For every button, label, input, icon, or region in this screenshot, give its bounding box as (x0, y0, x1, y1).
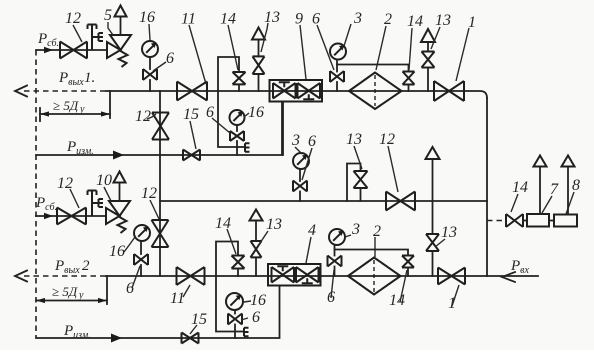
cap purge line1-loop (237, 143, 250, 151)
svg-text:14: 14 (215, 215, 231, 232)
valve 6 below gauge16 top-left (143, 69, 157, 91)
label 10 (96, 172, 112, 201)
svg-text:14: 14 (389, 292, 405, 309)
wire P_vyh2 dashed segment (24, 275, 106, 277)
gauge 16 top-left (142, 41, 158, 69)
label 3 line2 (345, 221, 360, 238)
valve 6 line2-loop (228, 314, 242, 339)
valve 12 bottom-left (57, 208, 86, 225)
svg-text:12: 12 (379, 131, 395, 148)
svg-text:Ризм.: Ризм. (63, 323, 91, 341)
pilot T-E symbol bottom (88, 191, 104, 217)
svg-text:12: 12 (65, 10, 81, 27)
label 8 (566, 177, 580, 214)
gauge 3 line2 (329, 229, 345, 256)
wire P_sb2 line (36, 215, 105, 217)
wire P_sb1 line (36, 49, 107, 51)
label 6 line1 (312, 11, 334, 71)
svg-text:3: 3 (351, 221, 360, 238)
label 3 line1 (344, 10, 362, 46)
label 1 line2 (448, 285, 459, 312)
label 2 line2 (373, 223, 381, 257)
valve 12 top-left (60, 42, 87, 59)
label P_vh text (510, 258, 530, 276)
regulator 4 (268, 264, 321, 286)
svg-text:3: 3 (291, 132, 300, 149)
valve 14 bypass line1 (337, 65, 415, 92)
valve 13 vent line1 (252, 28, 265, 92)
svg-text:16: 16 (109, 243, 125, 260)
svg-text:9: 9 (295, 11, 303, 28)
svg-text:12: 12 (135, 108, 151, 125)
svg-text:2: 2 (384, 11, 392, 28)
label 15 P_izm2 (190, 311, 207, 334)
label 4 (306, 222, 316, 263)
gauge 16 line1-loop (230, 110, 245, 131)
label 13 line1-right (431, 12, 451, 49)
label 7 (542, 181, 559, 213)
valve 12 middle (386, 192, 415, 211)
label 13 line2-right (435, 224, 457, 247)
dimension 5Du top (40, 91, 110, 121)
valve 12 lower interconnect (152, 220, 169, 247)
label 11 line2 (170, 285, 190, 307)
svg-text:14: 14 (512, 179, 528, 196)
label 13 line2 (258, 216, 282, 246)
svg-text:1.: 1. (84, 70, 95, 86)
svg-text:11: 11 (181, 11, 196, 28)
relief valve 5 (107, 6, 131, 68)
valve 1 line1 (434, 81, 464, 101)
label 14 line1 (220, 11, 238, 71)
label 9 (295, 11, 306, 80)
label 14 line2 (215, 215, 236, 254)
label 14 bypass line1 (407, 13, 423, 70)
node input arrow (502, 272, 515, 282)
valve 13 vent line1-right (421, 29, 435, 91)
label 13 line1 (261, 9, 280, 52)
wire P_izm1 line (36, 102, 282, 155)
filter 2 line1 (349, 73, 402, 110)
wire riser right (486, 98, 488, 276)
label 14 bypass line2 (389, 270, 407, 309)
wire analyzer link1 (523, 220, 527, 222)
label 16 line2-loop (244, 292, 266, 309)
svg-text:16: 16 (139, 9, 155, 26)
valve 11 line2 (177, 267, 205, 285)
svg-text:8: 8 (572, 177, 580, 194)
label 6 top-left (153, 50, 174, 71)
label 6 middle (302, 133, 316, 180)
label 3 middle (291, 132, 302, 154)
svg-text:3: 3 (353, 10, 362, 27)
gauge 3 middle (293, 153, 309, 181)
svg-text:Рвых: Рвых (54, 258, 80, 276)
svg-text:11: 11 (170, 290, 185, 307)
svg-text:6: 6 (312, 11, 320, 28)
svg-text:≥ 5Д: ≥ 5Д (52, 284, 78, 299)
label 6 line2 (327, 270, 335, 306)
relief valve 10 (106, 172, 130, 234)
label 5 (104, 7, 113, 35)
gauge 3 line1 (330, 44, 346, 72)
dimension 5Du bottom (36, 276, 107, 304)
wire analyzer link2 (549, 220, 554, 222)
svg-text:6: 6 (126, 280, 134, 297)
pilot T-E symbol top (88, 25, 104, 51)
node output-1 arrow (15, 86, 27, 97)
label 6 bottom-left (126, 266, 140, 297)
gauge 16 line2-loop (226, 293, 243, 314)
wire P_vyh1 dashed segment (24, 90, 106, 92)
wire interconnect vertical (159, 91, 161, 276)
svg-text:15: 15 (191, 311, 207, 328)
svg-text:16: 16 (248, 104, 264, 121)
valve 11 line1 (177, 82, 207, 101)
cap purge line2-loop (235, 328, 249, 336)
valve 6 line1-loop (230, 131, 244, 155)
arrow P_izm1 flow (113, 151, 124, 160)
label P_izm1 text (66, 139, 94, 157)
label P_sb1 text (37, 31, 59, 49)
valve 14 bypass line2 (335, 250, 415, 277)
svg-text:6: 6 (252, 309, 260, 326)
svg-text:у: у (79, 104, 85, 115)
svg-text:7: 7 (550, 181, 559, 198)
label 1 line1 (456, 14, 476, 81)
wire loop line1 (218, 91, 237, 147)
svg-text:2: 2 (82, 258, 90, 274)
arrow P_sb1 flow (44, 47, 53, 53)
label 16 top-left (139, 9, 155, 40)
label 6 line1-loop (206, 104, 230, 133)
vent device 7 (534, 156, 547, 215)
valve 6 line1 (330, 71, 344, 91)
label 16 bottom-left (109, 237, 135, 260)
valve 1 line2 (438, 268, 465, 285)
svg-text:13: 13 (264, 9, 280, 26)
wire boundary dashed vertical (35, 50, 37, 338)
wire loop line2 (216, 276, 235, 332)
valve 6 below gauge16 bottom-left (134, 254, 148, 276)
svg-text:13: 13 (266, 216, 282, 233)
svg-text:у: у (78, 290, 84, 301)
label P_sb2 text (35, 195, 57, 213)
wire main line 1 (106, 91, 487, 98)
label 12 middle (379, 131, 398, 192)
valve 6 line2 (328, 256, 342, 277)
vent stack middle (426, 147, 440, 234)
label P_izm2 text (63, 323, 91, 341)
svg-text:16: 16 (250, 292, 266, 309)
valve 15 P_izm2 (182, 333, 199, 344)
label 2 line1 (376, 11, 392, 70)
device 7 box (527, 214, 549, 227)
svg-text:10: 10 (96, 172, 112, 189)
label 13 middle (346, 131, 362, 169)
label P_vyh1 text (58, 70, 95, 88)
svg-text:13: 13 (441, 224, 457, 241)
svg-text:2: 2 (373, 223, 381, 240)
node output-2 arrow (15, 271, 27, 282)
valve 14 loop line1 (218, 57, 246, 91)
label 14 analyzer (511, 179, 528, 212)
valve 14 analyzer (506, 214, 523, 227)
valve 14 loop line2 (216, 242, 245, 277)
svg-text:13: 13 (346, 131, 362, 148)
label 15 P_izm1 (183, 106, 199, 149)
wire P_izm2 line (36, 287, 280, 338)
svg-text:13: 13 (435, 12, 451, 29)
valve 13 loop middle (347, 164, 368, 202)
svg-text:6: 6 (166, 50, 174, 67)
svg-text:14: 14 (407, 13, 423, 30)
label 12 top-left (65, 10, 82, 42)
svg-text:5: 5 (104, 7, 112, 24)
filter 2 line2 (348, 258, 401, 295)
svg-text:≥ 5Д: ≥ 5Д (53, 98, 79, 113)
wire analyzer dashed (487, 220, 506, 222)
regulator 9 (270, 80, 323, 102)
label 16 line1-loop (244, 104, 264, 121)
svg-text:4: 4 (308, 222, 316, 239)
svg-text:6: 6 (308, 133, 316, 150)
svg-text:Рсб.: Рсб. (37, 31, 59, 49)
svg-text:Рвых: Рвых (58, 70, 84, 88)
svg-text:Рвх: Рвх (510, 258, 530, 276)
wire middle line (160, 200, 487, 202)
svg-text:Ризм.: Ризм. (66, 139, 94, 157)
svg-text:12: 12 (141, 185, 157, 202)
valve 13 vent line2-right (426, 234, 439, 276)
wire regulator9 impulse (282, 102, 284, 156)
valve 15 P_izm1 (183, 150, 200, 161)
valve 6 middle (293, 181, 307, 202)
wire main line 2 (106, 275, 538, 277)
device 8 box (554, 215, 577, 227)
valve 13 vent line2 (250, 210, 263, 277)
svg-text:Рсб.: Рсб. (35, 195, 57, 213)
valve 12 upper interconnect (152, 113, 169, 140)
label P_vyh2 text (54, 258, 90, 276)
vent device 8 (562, 156, 575, 215)
svg-text:14: 14 (220, 11, 236, 28)
label 11 line1 (181, 11, 206, 85)
arrow P_izm2 flow (111, 334, 122, 343)
label 6 line2-loop (241, 309, 260, 326)
label 12 lower interconnect (141, 185, 159, 219)
arrow P_sb2 flow (44, 213, 53, 219)
label 12 bottom-left (57, 175, 79, 208)
gauge 16 bottom-left (134, 225, 150, 254)
label 12 upper interconnect (135, 108, 156, 125)
svg-text:15: 15 (183, 106, 199, 123)
